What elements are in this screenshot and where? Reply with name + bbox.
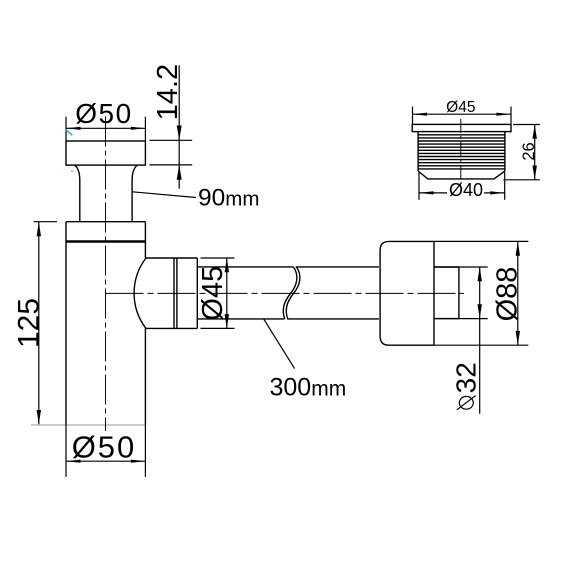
svg-text:32: 32	[451, 362, 482, 393]
cyan artifact slash	[66, 130, 73, 173]
svg-text:Ø50: Ø50	[72, 430, 137, 465]
svg-text:300mm: 300mm	[270, 374, 347, 402]
bottle trap top cap flange	[66, 141, 145, 165]
bottle body outline	[31, 222, 146, 425]
dimension Ø50 bottom	[66, 425, 145, 477]
leader 90mm	[132, 185, 259, 212]
wall flange cylinder	[380, 241, 434, 345]
neck right fillet and side	[132, 165, 137, 222]
outlet intersection arc on bottle	[134, 258, 146, 328]
dimension Ø88	[434, 241, 528, 345]
svg-text:Ø50: Ø50	[75, 98, 132, 129]
dimension 26 fitting	[503, 125, 539, 180]
svg-text:26: 26	[520, 142, 538, 160]
leader 300mm	[264, 319, 346, 401]
svg-text:90mm: 90mm	[198, 185, 259, 212]
svg-text:125: 125	[13, 298, 46, 348]
fitting thread lines	[418, 135, 505, 169]
pipe left segment	[197, 267, 293, 319]
pipe right segment	[287, 267, 379, 319]
svg-text:Ø88: Ø88	[492, 267, 524, 322]
outlet collar outline	[145, 258, 197, 328]
fitting bottom chamfer	[418, 171, 505, 179]
horizontal centerline of outlet pipe	[106, 292, 465, 294]
threaded fitting flange	[412, 124, 511, 131]
fitting centerline	[460, 119, 462, 181]
neck left fillet and side	[75, 165, 80, 222]
vertical centerline of bottle	[105, 117, 107, 432]
threaded fitting body	[418, 132, 505, 171]
dimension 125	[13, 222, 58, 425]
dimension Ø50 top	[66, 98, 145, 141]
svg-text:Ø45: Ø45	[197, 266, 229, 321]
pipe break squiggle	[283, 267, 300, 319]
svg-text:Ø40: Ø40	[449, 180, 483, 200]
svg-text:14.2: 14.2	[152, 64, 184, 120]
dimension Ø40 fitting	[419, 172, 505, 200]
svg-text:Ø45: Ø45	[446, 99, 475, 116]
dimension 14.2	[150, 64, 193, 189]
dimension ø32	[434, 267, 488, 414]
thick joint line on bottle flange	[66, 240, 145, 243]
dimension Ø45 collar	[197, 258, 235, 328]
pipe stub at wall flange	[434, 267, 459, 319]
dimension Ø45 fitting	[413, 99, 512, 124]
